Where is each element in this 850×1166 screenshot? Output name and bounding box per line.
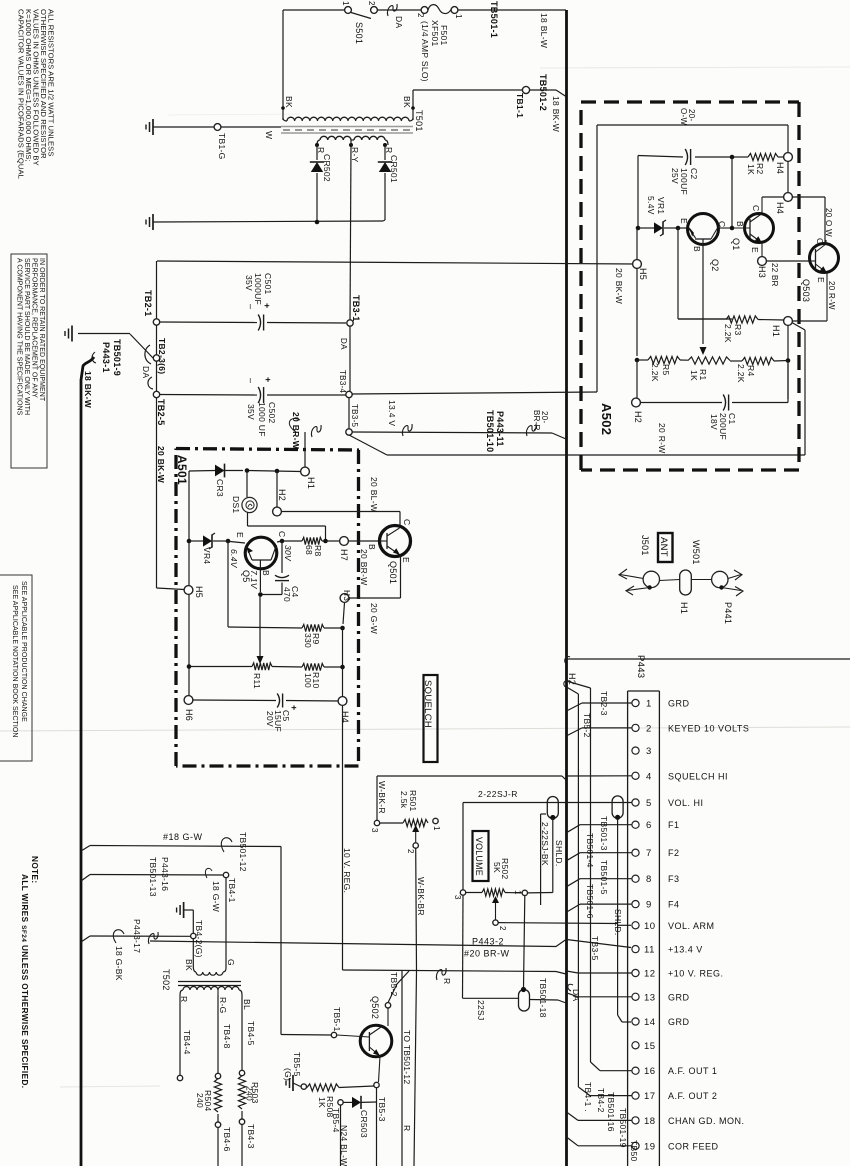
connector P443 pin 18 CHAN GD. MON. <box>632 1117 639 1124</box>
connector P443 pin 16 A.F. OUT 1 <box>632 1067 639 1074</box>
terminal H4 (upper) <box>784 153 793 162</box>
svg-text:R: R <box>402 1125 412 1131</box>
svg-text:A.F. OUT 1: A.F. OUT 1 <box>668 1066 717 1076</box>
shield capsule (22SJ) <box>519 990 530 1012</box>
terminal TB5-1 <box>331 1032 336 1037</box>
svg-text:O-W: O-W <box>679 108 688 125</box>
svg-text:VOL. HI: VOL. HI <box>668 798 704 808</box>
svg-text:17: 17 <box>644 1091 656 1102</box>
wire <box>379 1056 381 1082</box>
ground (rectifier rail) <box>152 214 154 230</box>
connector P443 pin 14 GRD <box>632 1018 639 1025</box>
svg-text:TB1-1: TB1-1 <box>515 93 525 118</box>
terminal TB5-2 <box>385 1003 390 1008</box>
wire <box>787 325 789 399</box>
diode CR503 <box>343 1101 352 1103</box>
svg-text:C: C <box>815 238 825 244</box>
wire rectifier ground rail <box>153 221 383 222</box>
svg-text:F2: F2 <box>668 848 680 858</box>
wire <box>376 1088 378 1166</box>
shield capsule (vol arm) <box>612 796 623 818</box>
svg-text:TB2-3: TB2-3 <box>599 691 609 716</box>
terminal TB3-5 <box>346 429 352 435</box>
svg-text:20 BK-W: 20 BK-W <box>614 268 624 304</box>
svg-text:18 BL-W: 18 BL-W <box>539 13 549 48</box>
wire <box>348 398 350 429</box>
terminal TB4-2(G) <box>191 933 196 938</box>
wire Q2 base to R1 wiper <box>702 256 704 344</box>
svg-text:A.F. OUT 2: A.F. OUT 2 <box>668 1091 717 1101</box>
svg-text:2.2K: 2.2K <box>723 324 733 343</box>
resistor R504 240 <box>214 1079 221 1112</box>
connector P443 pin 4 SQUELCH HI <box>632 772 639 779</box>
svg-text:CAPACITOR VALUES IN PICOFARADS: CAPACITOR VALUES IN PICOFARADS (EQUAL <box>17 9 26 179</box>
svg-text:T502: T502 <box>161 969 171 991</box>
svg-text:TO TB501-12: TO TB501-12 <box>402 1030 412 1085</box>
wire 20 BR-W to Q501 base <box>349 540 381 542</box>
svg-text:(1/4 AMP SLO): (1/4 AMP SLO) <box>420 21 430 82</box>
svg-text:TB4-5: TB4-5 <box>246 1021 256 1046</box>
svg-text:TB3-1: TB3-1 <box>351 295 361 322</box>
svg-text:E: E <box>235 532 245 538</box>
capacitor C1 200UF 18V <box>640 402 722 404</box>
svg-text:GRD: GRD <box>668 992 690 1002</box>
svg-text:SHLD.: SHLD. <box>613 909 623 936</box>
connector P443 pin 7 F2 <box>632 849 639 856</box>
svg-text:A502: A502 <box>599 403 614 435</box>
wire <box>636 268 638 356</box>
resistor R4 2.2K <box>742 357 774 364</box>
svg-text:B: B <box>692 246 702 252</box>
svg-text:Q501: Q501 <box>388 561 398 584</box>
svg-text:#18 G-W: #18 G-W <box>163 832 203 842</box>
svg-text:5K: 5K <box>492 862 502 873</box>
wire <box>378 9 422 11</box>
connector J501 (antenna jack) <box>643 571 659 587</box>
module A501 border <box>176 449 359 451</box>
transistor Q501 <box>380 526 411 557</box>
wire <box>343 603 345 625</box>
svg-text:TB5-2: TB5-2 <box>389 972 399 997</box>
terminal TB501-2 / TB1-1 <box>413 89 522 91</box>
resistor R8 68 <box>302 537 322 544</box>
wire <box>188 471 190 696</box>
svg-text:KEYED 10 VOLTS: KEYED 10 VOLTS <box>668 723 749 733</box>
resistor R10 100 <box>302 663 324 670</box>
cable harness (right) <box>565 10 568 1166</box>
svg-text:TB4-1 .: TB4-1 . <box>583 1082 593 1112</box>
terminal TB4-8 <box>215 1073 220 1078</box>
module A502 border <box>581 100 799 103</box>
svg-text:+13.4 V: +13.4 V <box>668 945 703 955</box>
svg-text:TB501-5: TB501-5 <box>599 860 609 895</box>
svg-text:TB5-3: TB5-3 <box>377 1097 387 1122</box>
wire to antenna <box>565 657 570 664</box>
terminal H7 <box>340 537 349 546</box>
svg-text:25V: 25V <box>670 168 680 184</box>
svg-text:20 R-W: 20 R-W <box>827 281 836 310</box>
svg-text:A501: A501 <box>175 455 189 485</box>
lamp DS1 <box>246 471 248 498</box>
wire <box>637 156 639 229</box>
svg-text:VR1: VR1 <box>656 197 666 214</box>
wire-name R curl <box>436 968 446 980</box>
wire pin1 <box>582 702 632 704</box>
wire H5 column <box>636 228 638 260</box>
svg-text:J501: J501 <box>640 535 650 556</box>
wire 20 BL-W to Q501 <box>282 511 401 513</box>
wire Q5 collector node <box>280 539 285 544</box>
svg-text:330: 330 <box>303 633 313 648</box>
transformer T501 <box>283 118 287 121</box>
svg-text:1: 1 <box>513 890 522 895</box>
ground (TB2-3) <box>71 326 73 342</box>
wire pin18 <box>578 1119 632 1121</box>
wire pin12 <box>578 972 632 974</box>
terminal TB4-1 <box>223 872 228 877</box>
svg-text:1K: 1K <box>746 164 756 175</box>
svg-text:20 BL-W: 20 BL-W <box>369 477 379 512</box>
svg-text:2: 2 <box>416 13 425 18</box>
svg-text:BK: BK <box>184 959 194 971</box>
svg-text:1: 1 <box>454 14 463 19</box>
wire BK (right) <box>412 90 414 120</box>
svg-text:F1: F1 <box>668 820 680 830</box>
connector P443 pin 3 <box>632 747 639 754</box>
terminal H5 (A502) <box>633 260 642 269</box>
svg-text:A COMPONENT HAVING THE SPE: A COMPONENT HAVING THE SPECIFICATIONS <box>16 258 23 416</box>
svg-text:7: 7 <box>646 848 652 859</box>
svg-text:H3: H3 <box>342 590 351 601</box>
wire 22 BR <box>766 260 810 262</box>
svg-text:16: 16 <box>644 1066 656 1077</box>
svg-text:C2: C2 <box>689 168 699 179</box>
svg-text:XF501: XF501 <box>430 20 440 47</box>
svg-text:240: 240 <box>245 1086 255 1101</box>
wire H4-H4 <box>787 161 789 193</box>
svg-text:–: – <box>246 378 256 383</box>
wire 10 V. REG. <box>342 706 344 971</box>
svg-text:H2: H2 <box>277 489 287 501</box>
ground (TB5-5) <box>292 1075 294 1091</box>
svg-text:T501: T501 <box>414 110 424 132</box>
svg-text:TB2-1: TB2-1 <box>143 290 153 317</box>
terminal H2 (A502) <box>632 398 641 407</box>
svg-text:H1: H1 <box>306 477 316 489</box>
wire Q501 emitter 20 G-W <box>400 556 402 599</box>
svg-text:240: 240 <box>195 1093 205 1108</box>
svg-text:1K: 1K <box>317 1097 327 1108</box>
transistor Q1 <box>745 214 774 243</box>
svg-text:H5: H5 <box>194 586 204 598</box>
svg-text:19: 19 <box>644 1141 656 1152</box>
wire pin19 <box>578 1145 632 1147</box>
wire <box>387 1008 389 1026</box>
svg-text:TB501-13: TB501-13 <box>148 857 158 897</box>
wire P443-17 stub <box>81 936 90 942</box>
svg-text:S501: S501 <box>354 22 364 44</box>
svg-text:W501: W501 <box>691 540 701 565</box>
wire W-BK-R to pin4 <box>376 776 378 821</box>
svg-text:Q2: Q2 <box>710 259 720 272</box>
terminal TB4-6 <box>215 1122 220 1127</box>
wire #20 BR-W / P443-2 <box>150 940 566 947</box>
svg-text:TB5-4: TB5-4 <box>331 1108 341 1133</box>
svg-text:+10 V. REG.: +10 V. REG. <box>668 969 723 979</box>
svg-text:20 G-W: 20 G-W <box>369 603 379 634</box>
terminal TB3-4 <box>346 391 352 397</box>
connector P443 pin 12 +10 V. REG. <box>632 969 639 976</box>
svg-text:PERFORMANCE, REPLACEMENT OF: PERFORMANCE, REPLACEMENT OF ANY <box>31 258 38 398</box>
label H2 (harness) <box>564 681 569 688</box>
terminal H4 (A501) <box>338 697 347 706</box>
svg-text:F3: F3 <box>668 874 680 884</box>
svg-text:20 O W: 20 O W <box>824 208 833 237</box>
zener VR1 5.4V <box>638 227 654 229</box>
svg-text:H4: H4 <box>775 202 785 214</box>
svg-text:C501: C501 <box>263 273 273 295</box>
svg-text:DA: DA <box>571 989 581 1001</box>
svg-text:TB501-9: TB501-9 <box>112 339 122 376</box>
svg-text:18V: 18V <box>709 414 719 430</box>
svg-text:P443-11: P443-11 <box>495 411 505 447</box>
svg-text:R: R <box>442 978 452 984</box>
resistor R9 330 <box>302 624 324 631</box>
svg-text:C: C <box>717 221 727 227</box>
svg-text:R4: R4 <box>746 365 756 376</box>
wire 13.4V to harness <box>352 432 552 433</box>
terminal H3 <box>758 257 767 266</box>
svg-text:P443: P443 <box>635 655 646 678</box>
svg-text:2-22SJ-BK: 2-22SJ-BK <box>540 822 550 866</box>
svg-text:SHLD.: SHLD. <box>554 840 564 867</box>
svg-text:TB501-10: TB501-10 <box>485 410 495 452</box>
fuse F501 <box>421 7 428 14</box>
diode CR3 <box>189 470 215 473</box>
label SQUELCH (boxed) <box>424 675 438 762</box>
svg-text:3: 3 <box>370 828 379 833</box>
terminal TB4-5 <box>239 1070 244 1075</box>
svg-text:22 BR: 22 BR <box>770 263 779 287</box>
wire +13.4V to A502 H4 <box>352 392 597 394</box>
svg-text:DA: DA <box>339 338 348 350</box>
wire E rail to R9 <box>227 541 229 627</box>
svg-text:H6: H6 <box>184 709 194 721</box>
wire R502-3 shield down <box>462 895 465 998</box>
wire 20 O-W to Q503 <box>792 196 825 198</box>
connector P443 pin 6 F1 <box>632 821 639 828</box>
svg-text:P441: P441 <box>723 602 733 624</box>
svg-text:E: E <box>679 218 689 224</box>
terminal TB4-4 <box>177 1075 182 1080</box>
terminal TB2-1 <box>153 319 159 325</box>
terminal H6 <box>184 696 193 705</box>
svg-text:R3: R3 <box>733 324 743 335</box>
svg-text:5.4V: 5.4V <box>646 196 656 215</box>
svg-text:P443-17: P443-17 <box>132 919 142 953</box>
svg-text:(G): (G) <box>283 1068 293 1081</box>
svg-text:35V: 35V <box>244 275 254 291</box>
svg-text:18 G-BK: 18 G-BK <box>114 946 124 981</box>
svg-text:Q502: Q502 <box>370 996 380 1019</box>
svg-text:R-G: R-G <box>218 997 228 1013</box>
wire pin6 <box>580 824 632 826</box>
svg-text:TB501-12: TB501-12 <box>238 832 248 872</box>
svg-text:2.2K: 2.2K <box>736 364 746 383</box>
svg-text:3: 3 <box>453 895 462 900</box>
capacitor C4 470 <box>281 541 283 573</box>
svg-text:TB3-4: TB3-4 <box>338 370 347 394</box>
wire SHLD to pin 10/14 <box>617 819 619 1016</box>
svg-text:18 BK-W: 18 BK-W <box>83 371 93 409</box>
svg-text:COR FEED: COR FEED <box>668 1141 719 1151</box>
label VOLUME (boxed) <box>473 831 489 881</box>
svg-text:H2: H2 <box>633 411 643 423</box>
svg-text:W-BK-R: W-BK-R <box>377 781 387 814</box>
wire 2-22SJ-BK <box>552 818 554 893</box>
wire 20 BK-W from TB2-5 <box>157 588 185 590</box>
terminal TB2-5 <box>153 391 159 397</box>
wire <box>636 360 638 398</box>
svg-text:GRD: GRD <box>668 699 690 709</box>
svg-text:R5: R5 <box>661 364 671 375</box>
wire <box>226 539 231 544</box>
wire <box>225 878 227 968</box>
connector P441 <box>712 571 728 587</box>
cable harness (left) <box>81 357 94 1166</box>
note: service part replacement (boxed) <box>11 254 47 468</box>
connector P443 pin 13 GRD <box>632 993 639 1000</box>
svg-text:BK: BK <box>402 96 412 108</box>
svg-text:ALL WIRES SF24 UNLESS OTHE: ALL WIRES SF24 UNLESS OTHERWISE SPECIFIE… <box>20 874 29 1088</box>
wire 22SJ to harness <box>530 999 558 1002</box>
svg-text:H1: H1 <box>771 325 781 337</box>
svg-text:TB2-5: TB2-5 <box>156 399 166 426</box>
wire <box>340 1105 342 1166</box>
svg-text:BK: BK <box>284 96 294 108</box>
svg-text:TB3-5: TB3-5 <box>350 404 359 428</box>
svg-text:TB501-16: TB501-16 <box>606 1092 616 1132</box>
diode CR502 <box>316 145 318 160</box>
svg-text:G: G <box>226 959 236 966</box>
svg-text:SQUELCH: SQUELCH <box>422 680 433 728</box>
terminal TB2-3(6) <box>153 355 159 361</box>
resistor R5 2.2K <box>635 358 640 363</box>
svg-text:VOL. ARM: VOL. ARM <box>668 921 715 931</box>
svg-text:SERVICE PART SHOULD BE MAD: SERVICE PART SHOULD BE MADE ONLY WITH <box>23 258 30 415</box>
wire pin7 <box>580 852 632 854</box>
svg-text:C: C <box>751 205 761 211</box>
capacitor C2 100UF 25V <box>695 156 732 158</box>
resistor R3 2.2K <box>678 318 726 320</box>
svg-text:TB1-G: TB1-G <box>217 133 227 160</box>
svg-text:C: C <box>402 519 412 525</box>
wire TB2 column <box>156 261 158 588</box>
transformer T502 <box>193 966 196 972</box>
svg-text:SEE APPLICABLE NOTATION BOO: SEE APPLICABLE NOTATION BOOK SECTION <box>11 585 18 737</box>
svg-text:20V: 20V <box>265 711 275 727</box>
note: production change (boxed) <box>0 575 32 761</box>
svg-text:35V: 35V <box>246 404 256 420</box>
svg-text:TB3-5: TB3-5 <box>590 936 600 961</box>
svg-text:10: 10 <box>644 921 656 932</box>
terminal TB5-4 <box>338 1100 343 1105</box>
svg-text:68: 68 <box>304 545 314 555</box>
wire 2-22SJ-R / VOL HI <box>462 803 464 891</box>
svg-text:TB501-18: TB501-18 <box>538 978 548 1018</box>
svg-text:VOLUME: VOLUME <box>474 837 484 876</box>
wire 18 BL-W to harness <box>458 9 566 11</box>
svg-text:3: 3 <box>646 746 652 757</box>
svg-text:2-22SJ-R: 2-22SJ-R <box>478 789 518 799</box>
wire <box>342 667 344 697</box>
svg-text:20 BR-W: 20 BR-W <box>359 549 369 586</box>
transistor Q502 <box>360 1025 392 1057</box>
shield capsule (vol hi) <box>547 797 558 819</box>
connector P443 pin 10 VOL. ARM <box>632 922 639 929</box>
wire <box>342 628 344 667</box>
svg-text:E: E <box>816 277 826 283</box>
svg-text:+: + <box>263 377 273 383</box>
potentiometer R1 1K <box>688 357 730 364</box>
wire <box>283 9 344 11</box>
svg-text:13: 13 <box>644 992 656 1003</box>
wire pin2 <box>582 727 632 729</box>
svg-text:BL: BL <box>242 999 252 1010</box>
terminal H5 (A501) <box>184 586 193 595</box>
terminal TB3-1 <box>347 320 353 326</box>
svg-text:2: 2 <box>498 926 507 931</box>
harness entry curl <box>92 352 96 363</box>
svg-text:DA: DA <box>394 16 404 28</box>
svg-text:15: 15 <box>644 1041 656 1052</box>
transistor Q5 <box>245 537 277 569</box>
terminal H2 (A501) <box>273 507 282 516</box>
wire 20 BR-W from TB3-5 <box>304 432 306 467</box>
transistor Q503 <box>810 244 839 273</box>
wire W-BK-BR <box>415 848 418 971</box>
svg-text:GRD: GRD <box>668 1017 690 1027</box>
wire <box>676 226 681 231</box>
svg-text:Q1: Q1 <box>731 238 741 251</box>
svg-text:TB5-1: TB5-1 <box>332 1007 342 1032</box>
svg-text:DA: DA <box>141 366 151 378</box>
wire pin13 <box>578 996 632 998</box>
wire <box>217 1127 219 1166</box>
terminal H1 (A502) <box>784 317 793 326</box>
wire <box>217 995 219 1073</box>
svg-text:TB501-1: TB501-1 <box>489 1 499 38</box>
wire TO TB501-12 <box>401 971 403 1166</box>
svg-text:1: 1 <box>432 826 441 831</box>
connector P443 pin 17 A.F. OUT 2 <box>632 1092 639 1099</box>
svg-text:1000 UF: 1000 UF <box>257 402 267 437</box>
connector P443 pin 2 KEYED 10 VOLTS <box>632 724 639 731</box>
svg-text:13.4 V: 13.4 V <box>387 400 397 426</box>
svg-text:P443-2: P443-2 <box>472 937 504 947</box>
svg-text:2.2K: 2.2K <box>650 363 660 382</box>
svg-text:TB501-2: TB501-2 <box>538 74 548 111</box>
svg-text:5: 5 <box>646 798 652 809</box>
svg-text:CR502: CR502 <box>322 154 332 182</box>
svg-text:18: 18 <box>644 1116 656 1127</box>
svg-text:BR-R: BR-R <box>532 410 541 431</box>
terminal TB1-G <box>153 126 214 128</box>
wire Q1 base column <box>731 157 733 228</box>
wire H2 column <box>276 471 278 508</box>
svg-text:H3: H3 <box>757 266 767 278</box>
svg-text:B: B <box>261 570 271 576</box>
